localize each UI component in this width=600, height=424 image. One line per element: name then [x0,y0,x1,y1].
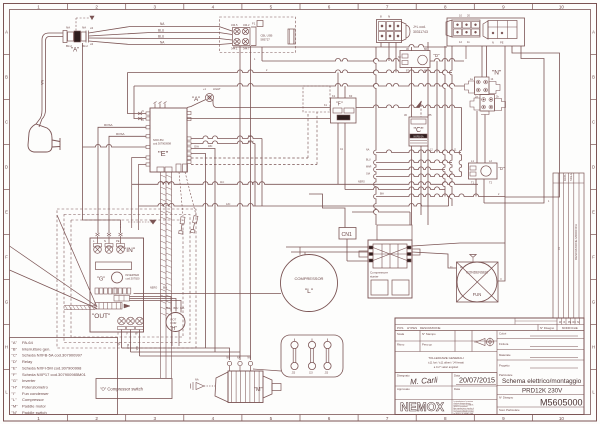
svg-text:NA: NA [195,378,199,382]
svg-text:NA: NA [40,80,44,85]
svg-text:BLU: BLU [158,29,165,33]
svg-text:5: 5 [270,416,273,421]
svg-text:30311743: 30311743 [413,30,428,34]
svg-text:NA: NA [82,26,86,30]
svg-text:"D": "D" [12,359,18,364]
svg-text:F: F [5,255,8,260]
svg-text:"A": "A" [71,48,79,54]
svg-text:Disegnato: Disegnato [397,374,410,378]
svg-text:10: 10 [559,4,565,9]
svg-text:N° Stampo: N° Stampo [422,332,436,336]
svg-text:INVERTER: INVERTER [126,273,140,277]
svg-text:NXFB-5A: NXFB-5A [413,135,424,138]
svg-text:N: N [388,15,390,19]
svg-text:6: 6 [328,416,331,421]
svg-text:"L": "L" [12,397,18,402]
svg-text:D: D [5,165,8,170]
svg-text:NEMOX: NEMOX [400,400,444,414]
svg-text:Materiale: Materiale [499,353,511,357]
svg-text:Scheda NXFI-5M cod.307900998: Scheda NXFI-5M cod.307900998 [22,365,82,370]
svg-text:344.5: 344.5 [231,23,238,27]
svg-text:MODIFICHE: MODIFICHE [562,326,578,330]
svg-text:a 0.2° valori angolari: a 0.2° valori angolari [434,365,459,369]
svg-text:F1: F1 [252,22,256,26]
svg-text:344.2: 344.2 [243,23,250,27]
svg-text:MAR: MAR [366,166,372,169]
svg-text:NA: NA [237,357,241,360]
svg-text:"G": "G" [97,277,105,283]
svg-text:NERO: NERO [358,180,365,183]
svg-text:Progetto: Progetto [499,364,510,368]
svg-text:Data: Data [454,387,460,391]
svg-text:RC: RC [573,321,577,324]
svg-text:4: 4 [212,4,215,9]
svg-text:±11 fori / ±11 alberi / J4 fre: ±11 fori / ±11 alberi / J4 fresati [428,361,464,365]
svg-text:A: A [5,30,8,35]
svg-text:N° Disegno: N° Disegno [540,326,555,330]
svg-text:M5605000: M5605000 [540,398,583,408]
svg-text:Scheda NXP17 cod.307900985M01: Scheda NXP17 cod.307900985M01 [22,372,87,377]
svg-text:G: G [592,300,595,305]
svg-text:Inverter: Inverter [22,378,36,383]
svg-text:N° Disegno: N° Disegno [499,396,514,400]
svg-text:x2: x2 [90,42,94,46]
svg-text:Approvato: Approvato [397,387,410,391]
svg-text:"D": "D" [434,53,441,58]
svg-text:8: 8 [444,416,447,421]
svg-text:PE: PE [116,239,120,243]
svg-text:x2: x2 [90,26,94,30]
svg-text:N: N [492,41,494,45]
svg-text:V: V [126,332,128,336]
svg-text:"C": "C" [12,353,18,358]
svg-text:NERO: NERO [150,287,157,290]
svg-text:"O" Compressor switch: "O" Compressor switch [100,387,144,392]
svg-text:7: 7 [386,416,389,421]
svg-text:PE: PE [500,41,504,45]
svg-text:NA: NA [248,134,252,138]
svg-text:BLU: BLU [174,307,179,310]
svg-text:Compressor: Compressor [22,397,44,402]
svg-text:"F": "F" [336,102,343,108]
svg-text:SI: SI [577,321,580,324]
svg-text:CN1: CN1 [342,232,352,238]
svg-text:HYPES: HYPES [407,326,417,330]
svg-text:"B": "B" [12,346,18,351]
svg-text:NA: NA [227,357,231,360]
svg-text:Scala: Scala [397,332,404,336]
svg-text:1: 1 [37,416,40,421]
svg-text:DESCRIZIONE: DESCRIZIONE [420,326,441,330]
svg-text:"N": "N" [492,70,502,77]
svg-text:"A": "A" [12,340,18,345]
svg-text:20/07/2015: 20/07/2015 [459,376,495,385]
svg-text:"N": "N" [12,410,18,415]
svg-text:"H": "H" [170,326,177,332]
svg-text:NA: NA [366,149,370,152]
svg-text:K1: K1 [332,94,336,98]
svg-text:BLU: BLU [248,139,253,143]
svg-text:Sost. Particolare: Sost. Particolare [499,408,520,412]
svg-text:GIA: GIA [194,145,199,149]
svg-text:F: F [592,255,595,260]
svg-text:H: H [5,345,8,350]
svg-text:8: 8 [444,4,447,9]
svg-text:NXFI-5M: NXFI-5M [153,138,163,142]
svg-text:B: B [592,75,595,80]
svg-text:11C: 11C [220,181,224,184]
svg-text:NA: NA [248,357,252,360]
svg-text:Ritmo: Ritmo [397,343,405,347]
svg-text:6: 6 [328,4,331,9]
svg-text:9: 9 [502,4,505,9]
svg-text:"A": "A" [192,97,200,103]
svg-text:A: A [592,30,595,35]
svg-text:Peso gr.: Peso gr. [422,343,432,347]
svg-text:POS: POS [397,326,403,330]
svg-text:"D": "D" [499,166,506,171]
svg-text:585727: 585727 [261,38,271,42]
svg-text:"L": "L" [305,288,314,295]
svg-text:Colori: Colori [499,332,507,336]
svg-text:3: 3 [153,416,156,421]
svg-text:3: 3 [153,4,156,9]
svg-text:"IN": "IN" [124,247,136,254]
svg-text:GIA: GIA [180,307,185,310]
svg-text:BLU: BLU [158,35,165,39]
svg-text:"H": "H" [12,384,18,389]
svg-text:9: 9 [502,416,505,421]
svg-text:C: C [592,120,595,125]
svg-text:G: G [5,300,8,305]
svg-text:"M": "M" [12,404,19,409]
svg-text:Relay: Relay [22,359,32,364]
svg-text:BIA: BIA [380,193,384,196]
svg-text:"M": "M" [254,387,263,393]
svg-text:5: 5 [270,4,273,9]
svg-text:NA: NA [66,26,70,30]
svg-text:DESCRIZIONE MODIFICA: DESCRIZIONE MODIFICA [574,224,578,260]
svg-text:7: 7 [386,4,389,9]
svg-text:cod.307900998: cod.307900998 [153,142,171,146]
svg-text:N: N [104,239,106,243]
svg-text:K0: K0 [349,94,353,98]
svg-text:J+L cod.: J+L cod. [413,25,426,29]
svg-text:Potenziometro: Potenziometro [22,384,49,389]
svg-text:Finitura: Finitura [499,342,509,346]
svg-text:R: R [564,321,566,324]
svg-text:CONDENSER: CONDENSER [466,271,488,275]
svg-text:U: U [117,332,119,336]
svg-text:2: 2 [95,4,98,9]
svg-text:FUN: FUN [473,292,482,297]
svg-text:COMPRESSOR: COMPRESSOR [295,276,324,281]
svg-text:GIA: GIA [366,173,371,176]
svg-text:BIA: BIA [163,287,167,290]
svg-text:FOR: FOR [171,321,177,325]
svg-text:LIGHT: LIGHT [213,87,221,91]
svg-text:1: 1 [37,4,40,9]
svg-text:E: E [592,210,595,215]
svg-text:"I": "I" [12,391,17,396]
svg-text:2: 2 [95,416,98,421]
svg-text:BIA: BIA [166,307,170,310]
svg-text:B: B [5,75,8,80]
svg-text:Paddle motor: Paddle motor [22,404,46,409]
svg-text:PRD12K 230V: PRD12K 230V [522,388,563,395]
svg-text:ROSA: ROSA [116,132,125,136]
svg-text:Paddle switch: Paddle switch [22,410,47,415]
svg-text:ROSA: ROSA [104,123,113,127]
svg-text:C: C [5,120,8,125]
svg-text:E: E [5,210,8,215]
svg-text:TOLLERANZE GENERALI: TOLLERANZE GENERALI [428,356,464,360]
svg-text:H: H [592,345,595,350]
svg-text:PA-64: PA-64 [22,340,34,345]
svg-text:Scheda NXFB-5A cod.307900997: Scheda NXFB-5A cod.307900997 [22,353,83,358]
svg-text:Particolare: Particolare [499,373,513,377]
svg-text:Interruttore gen.: Interruttore gen. [22,346,50,351]
svg-text:"F": "F" [12,372,18,377]
svg-text:BLU: BLU [366,159,371,162]
svg-text:starter: starter [370,275,379,279]
svg-text:PE: PE [568,321,572,324]
svg-text:"G": "G" [12,378,19,383]
svg-text:4: 4 [212,416,215,421]
svg-text:18C: 18C [208,145,213,148]
svg-text:Schema elettrico/montaggio: Schema elettrico/montaggio [502,378,582,385]
svg-text:"OUT": "OUT" [92,313,111,320]
svg-text:Fun condenser: Fun condenser [22,391,49,396]
svg-text:cod.307920: cod.307920 [126,277,141,281]
svg-text:10: 10 [559,416,565,421]
svg-text:"E": "E" [12,365,18,370]
svg-text:SIGLA: SIGLA [569,173,573,181]
svg-text:D: D [592,165,595,170]
svg-text:DATA: DATA [563,174,567,181]
svg-text:12C: 12C [226,203,231,206]
svg-text:"E": "E" [158,149,169,158]
svg-text:"C": "C" [413,127,424,134]
